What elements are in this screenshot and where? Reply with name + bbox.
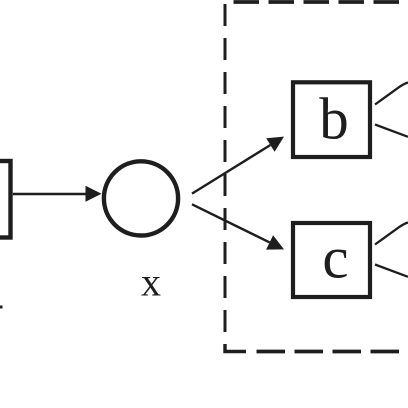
node a (left box, cropped)	[0, 161, 11, 238]
arrowhead into c	[266, 235, 284, 249]
wire x to c	[192, 204, 270, 242]
dashed region bottom-left corner	[225, 344, 246, 352]
arrowhead into b	[266, 137, 284, 152]
label a (cropped at left edge)	[0, 306, 3, 309]
arrowhead into x	[86, 186, 102, 202]
node c (box)	[293, 223, 370, 297]
dashed region bottom edge	[257, 350, 408, 354]
node b (box)	[293, 82, 370, 157]
wire c upper right (cropped)	[375, 223, 408, 245]
svg-text:x: x	[141, 260, 161, 305]
wire b lower right (cropped)	[375, 125, 408, 137]
wire a to x	[13, 193, 87, 195]
wire x to b	[192, 145, 270, 194]
svg-text:b: b	[319, 86, 349, 152]
node x (circle)	[104, 161, 178, 235]
dashed region top edge	[234, 0, 408, 4]
svg-text:c: c	[322, 225, 348, 291]
dashed region left edge	[224, 4, 227, 336]
wire b upper right (cropped)	[375, 83, 408, 105]
wire c lower right (cropped)	[375, 265, 408, 277]
